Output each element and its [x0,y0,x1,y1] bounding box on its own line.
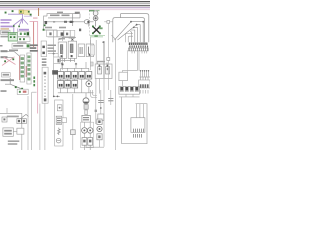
wire x95 vertical [95,94,97,125]
lamp E3 [56,138,61,143]
marks key cells [18,120,25,122]
node pin P9 [19,91,21,93]
connector sq top [107,21,110,24]
label sw bot2 [59,27,66,29]
dashed boundary line [89,10,91,36]
pin dots ECU [130,21,144,28]
wire tick row right [141,71,149,83]
pin FB1 [49,32,51,35]
wire red branch [33,22,35,47]
relay box R5 [119,72,128,80]
resistor E2 [58,128,61,135]
dashed boundary bottom [27,96,29,150]
node tip dots [13,25,20,27]
hatch CN2 [134,129,144,138]
dots CR1 [121,87,139,91]
wire pair ticks [84,122,90,127]
label row A [17,42,27,44]
connector tag T2 [24,10,30,14]
terminal top right [75,12,80,14]
terminal sq right [79,29,81,32]
fuse cell FB1 [47,30,57,36]
bus line pink [0,9,150,11]
wire injector return [58,87,94,93]
wire tick bottom line [140,76,151,78]
wire K4 feed [90,37,92,44]
connector box A1 [18,31,29,36]
node splice S6 [12,58,14,60]
wire hline under E [48,53,58,55]
wire C1 rail [100,90,102,114]
wire x62 vertical [62,50,64,70]
solenoid SV2 [65,81,71,89]
resistor box RB2 [3,128,13,136]
label left small [1,90,7,92]
sensor el 1 [98,67,102,74]
wire ECU v3 [130,27,137,42]
ignition box bottom left [0,113,22,150]
wire R5 drop [121,81,123,87]
label pin numbers row2 [129,45,148,47]
fuse cell FB3 [64,30,70,36]
element hatch E1 [56,116,61,124]
label inside L1 [3,74,9,76]
connector row CR1 [119,87,140,95]
node pin P2 [14,36,16,38]
label under G1 [1,36,11,38]
connector strip CF1 [41,41,46,57]
wire right long V2 [112,35,116,150]
pins CF2 [44,72,47,102]
node dot N5 [102,41,104,43]
fuse cell FB4 [70,30,74,36]
nested corners NC [91,90,98,98]
contact row blob [70,21,73,23]
label LG-B [1,19,14,27]
green dash below X [94,35,97,37]
connector bar CB1 [128,48,148,51]
mark RC3 [98,135,100,138]
label ign 1 [7,116,19,118]
label above K2 [69,37,76,38]
wire left edge bottom box [121,97,123,144]
node pin P8 [27,44,30,47]
terminal crosses [61,63,77,65]
wire V1 lower [103,78,105,147]
relay K1 [58,42,66,58]
pins CF1 [42,46,45,55]
node pin P7 [23,38,25,40]
label sw top1 [50,15,60,17]
wire drop x88 [88,22,90,27]
wire long V5 [44,104,46,150]
ECU2 box frame [122,104,147,144]
sensor strip SS1 [55,100,63,146]
wire purple drop [17,29,19,34]
label B-Y tan [1,28,10,29]
wire pink feed [30,22,38,114]
inner box N [90,45,94,55]
wire hline f1 [48,30,70,41]
connector tag T1 [19,10,24,14]
solenoid pair boxes bottom [82,138,93,146]
node pin P3 [20,33,22,35]
wire C2 rail [110,90,112,105]
solenoid pair boxes top [81,122,94,147]
wire x53 vertical [54,30,60,96]
bars K3 [80,47,83,54]
label pink tiny [33,17,38,18]
wire row main [44,21,94,23]
bus line ST violet [0,7,150,9]
wire FP1 top [85,93,87,98]
canister CN1 [82,115,90,122]
label pin numbers [129,43,148,45]
contact small [53,21,55,22]
node pin P1 [10,36,12,38]
wire feed [6,108,8,113]
dots pair circles [83,129,91,131]
label RB2 [4,130,12,135]
wire red rail J2 [25,66,27,77]
pump M1 [93,11,98,16]
label red in D1 [23,91,27,93]
label CF1 below [42,58,47,65]
wire injector bus [61,62,89,72]
label green vertical [33,77,35,87]
resistor box K4 [86,44,93,57]
wire green pair [90,35,105,37]
wire fan junction [5,78,26,91]
label inside A3 [13,45,23,47]
label edge tick [0,45,3,47]
ECU box U1 inner [113,18,145,43]
label above K1 [59,38,66,39]
wire CR1 bottom [119,94,140,97]
label above SB1 [97,61,105,63]
dot VC1 [88,83,90,85]
ECU box U1 outer [121,14,149,43]
connector strip J2 [27,53,31,84]
connector box D1 [17,89,28,94]
wire RB2-RB3 [13,130,17,132]
wire ECU corners [125,33,133,42]
injector INJ5 [86,72,92,80]
wire long V4 [39,104,41,150]
dot SS1 top [59,107,61,109]
connector label box L1 [2,73,11,77]
filter FT1 [84,105,88,110]
coil K2 [70,44,73,53]
wire pair mid [84,133,90,137]
wire x72 vertical [72,94,74,150]
wire row link [61,79,89,93]
wire row inner [48,14,80,26]
label sw bot1 [45,27,52,29]
pins J1 green [21,57,24,77]
node splice S3 [20,11,22,13]
dot in M2 [95,17,97,19]
relay K2 [68,41,76,58]
node splice S8 [21,88,23,90]
label mid small [9,50,18,52]
wire x127 drop [127,50,129,72]
node pin green F1 [44,24,46,26]
bus line ACC [0,3,150,5]
node dot N3 [60,38,62,40]
mark H1 [57,59,59,63]
node pin PX2 [92,32,94,34]
wire to ECU [104,21,113,23]
node pin PX1 [92,26,94,28]
blob in oval [87,21,89,23]
node splice S1 [5,12,7,14]
small box RB3 [17,128,24,134]
node dot N7 [53,53,55,55]
wire red rail J1 [19,56,21,80]
terminal cross X1 [71,39,73,41]
capacitor C1 [98,101,103,103]
ticks CB1 [130,48,148,51]
marks pair bottom [83,140,91,143]
wire pink cross 1 [2,57,15,66]
label purple row2 [19,29,29,31]
dark box H2 [52,70,58,74]
node pin P5 dark [27,32,29,35]
fuse cell FB2 [57,30,63,36]
ticks below bar [132,51,147,54]
dot RC2 [99,128,101,130]
component CM1 [71,130,76,135]
right chain box RC1 [97,119,102,124]
node dark ND1 [62,64,64,66]
injector INJ4 [79,72,85,80]
ground box GB1 [98,114,104,120]
label green top [89,10,95,12]
injector INJ1 [58,72,64,80]
node dots tick row [140,70,149,71]
wire sensor pins [98,62,107,64]
bars K4 [88,47,91,55]
label green right of X [99,27,102,29]
wire relay drops [61,58,75,62]
label ign 2 [8,140,19,144]
coil K1 [60,45,62,54]
small box CM0 [62,118,67,123]
resistor box K3 [78,44,84,57]
connector block CN2 [131,118,145,133]
ignition switch box SW [44,14,78,30]
wire x108 [107,60,109,90]
wire brown drop [38,8,40,16]
wire ECU diagonal 1 [115,22,132,40]
component SS1 top [57,105,62,111]
injector INJ3 [72,72,78,80]
dot sensor ign [3,118,5,120]
marks CN1 [83,117,89,120]
pins J2 green [28,56,31,81]
bus line IG [0,5,150,7]
capacitor C2 [108,99,113,101]
node splice S9 [43,29,45,31]
wire branch left [122,71,137,73]
shield box N [90,40,96,70]
connector box A2 [18,37,30,42]
wire ECU2 pins [136,104,143,118]
wire harness to connector [130,42,146,45]
right chain box RC3 [97,134,102,140]
wire ECU diagonal 2 [118,25,137,40]
node splice S7 [15,86,17,88]
solenoid SV3 [72,81,78,89]
contact mid [64,21,67,23]
wire bottom link [86,140,104,147]
wire pink cross 2 [4,57,16,65]
sensor box ign [2,117,7,122]
wire purple harness [8,14,28,32]
connector strip J1 [20,55,25,82]
mark E3 [57,140,60,142]
wire M2 down [95,21,97,27]
mark x95 [95,110,97,112]
node dot N4 [69,37,71,39]
contact pin dark [45,21,48,24]
node dot N8 [53,96,55,98]
pump M2 [93,16,98,21]
dot RC1 [98,120,100,123]
pin FB3 [66,33,68,36]
wire long vertical V1 [103,41,104,78]
connector strip CS2 [139,80,150,88]
pins SB1 dark [99,65,109,67]
connector oval OV1 [84,20,89,24]
neck NK1 [85,110,88,115]
cells CS2 [140,84,149,88]
wire ECU h2 [137,25,141,43]
node splice S5 [4,60,6,62]
terminal dark T3 [61,32,64,35]
small box N2 [90,62,93,66]
wire ECU h1 [131,22,143,43]
wire pair down [137,51,139,71]
label green in G2 [9,33,16,35]
node dot pale [28,11,30,13]
label W-B left [1,50,8,58]
key switch cells [17,119,26,124]
label sw outside [57,12,63,14]
wire relay top runs [58,38,76,41]
node splice S4 [30,14,32,16]
fuel pump FP1 [83,98,89,104]
label left of K1 [48,45,57,52]
wire pair bottom stubs [84,145,90,150]
cells CR1 [120,86,138,91]
inner FP1 [83,102,88,104]
wire to strip [8,51,21,56]
label W-B row [1,79,15,81]
node pin P4 [24,33,26,35]
label sw top2 [62,15,70,17]
diag mark top [21,114,29,118]
connector sq mid [107,58,110,61]
node dot N6 [100,107,102,109]
relay box G2 green [8,33,17,41]
wire stub [8,56,14,58]
node pin P6 [19,38,21,40]
dashed center CF2 [44,76,46,97]
solenoid pair circles [82,128,93,134]
wire sensor drops [96,79,100,94]
label inside G1 [2,31,9,33]
wire violet spur [24,15,32,17]
sensor el 2 [106,67,110,74]
bus line B+ top [0,1,150,3]
wire x108 upper [107,23,109,57]
connector strip CF2 [42,67,48,103]
wire CS2 ticks below [141,90,149,94]
node dot N9 [57,96,59,98]
box H1 [54,57,60,64]
connector box A3 [12,44,30,49]
hatch marks E1 [57,118,61,124]
node dot row [72,21,74,23]
injector INJ2 [65,72,71,80]
connector box G1 [1,30,10,34]
node splice S2 [12,10,14,12]
solenoid SV1 [58,81,64,89]
pins relay bottoms [61,54,91,58]
sensor box SB1 [95,64,112,79]
wire long V3 [32,92,37,150]
right chain circle RC2 [97,126,102,131]
text block center [30,44,38,51]
distributor X symbol [93,27,100,34]
vsv circle VC1 [86,81,92,87]
